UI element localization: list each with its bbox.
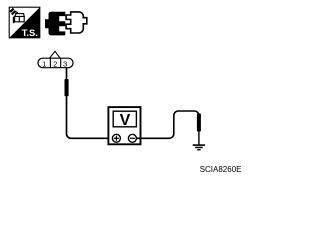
disconnect connector icon (black female half) [45,12,65,36]
wire: pin3 to voltmeter + terminal [67,68,113,139]
- terminal [128,134,136,142]
disconnect connector icon (white male half) [66,12,87,33]
connector body (pins 1 2 3) [38,58,73,68]
svg-text:V: V [120,112,131,129]
connector clip triangle [50,51,61,58]
ground [193,144,205,150]
svg-text:T.S.: T.S. [22,27,38,38]
svg-text:3: 3 [63,59,67,68]
T.S. tester icon [9,7,40,38]
wire: probe to ground [198,132,200,145]
wire sleeve (terminal) on left wire [65,79,69,96]
wire: voltmeter - terminal to probe [136,111,199,138]
svg-text:1: 1 [42,59,46,68]
probe tip [197,114,201,132]
hand/probe drawing [10,9,24,23]
voltmeter V1 [108,107,140,144]
svg-text:2: 2 [53,59,57,68]
svg-text:SCIA8260E: SCIA8260E [200,165,242,174]
+ terminal [112,134,120,142]
